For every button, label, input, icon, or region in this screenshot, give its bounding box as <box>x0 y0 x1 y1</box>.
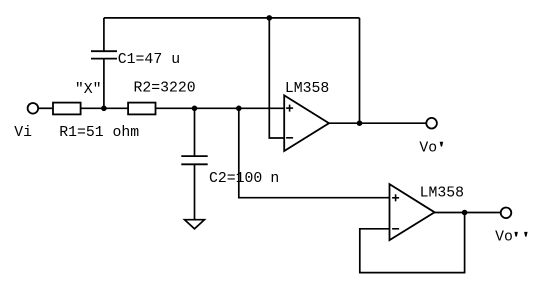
svg-text:Vo: Vo <box>495 229 513 245</box>
svg-text:LM358: LM358 <box>285 81 329 97</box>
terminal Vo' <box>426 118 437 129</box>
junction dot node to U2 <box>236 106 242 112</box>
svg-text:LM358: LM358 <box>420 186 464 202</box>
node X junction dot <box>101 106 107 112</box>
svg-text:Vi: Vi <box>14 125 32 141</box>
terminal Vo'' <box>501 208 512 219</box>
wire R1 to R2 <box>81 107 129 109</box>
svg-text:n: n <box>270 171 279 187</box>
svg-text:u: u <box>171 52 180 68</box>
svg-text:Vo: Vo <box>419 140 437 156</box>
wire top rail down to U1 output node <box>359 18 361 123</box>
resistor R2 <box>128 103 155 115</box>
wire C1 up to top rail <box>103 18 105 51</box>
wire node down to C2 <box>194 108 196 156</box>
wire node X up to C1 <box>103 59 105 109</box>
ground <box>185 220 205 229</box>
label Vo' apostrophe <box>440 142 444 147</box>
svg-text:"X": "X" <box>75 82 102 98</box>
U1 plus sign <box>286 105 293 112</box>
svg-text:R2=3220: R2=3220 <box>134 81 196 97</box>
U2 minus sign <box>392 228 399 230</box>
svg-text:C1=47: C1=47 <box>118 52 162 68</box>
terminal Vi <box>28 103 39 114</box>
op-amp U2 <box>390 184 435 240</box>
junction dot top rail <box>267 15 273 21</box>
junction dot U2 output <box>462 210 468 216</box>
svg-text:R1=51 ohm: R1=51 ohm <box>59 125 139 141</box>
wire top rail <box>104 17 360 19</box>
wire node down to U2 input <box>239 108 390 197</box>
wire U2 feedback <box>360 213 465 273</box>
U1 minus sign <box>286 137 293 139</box>
junction dot node C2 <box>192 106 198 112</box>
wire Vi to R1 <box>39 107 53 109</box>
junction dot U1 output <box>357 120 363 126</box>
label Vo'' second apostrophe <box>524 232 528 237</box>
wire U1 output to Vo' <box>329 122 426 124</box>
capacitor C1 <box>91 51 117 58</box>
wire C2 to ground <box>194 164 196 219</box>
resistor R1 <box>53 103 81 115</box>
wire top rail down to U1 inverting input <box>269 18 284 138</box>
wire U2 output to Vo'' <box>435 212 501 214</box>
U2 plus sign <box>392 194 399 201</box>
label Vo'' first apostrophe <box>514 232 518 237</box>
op-amp U1 <box>284 95 329 151</box>
wire R2 to U1 noninverting input <box>156 107 285 109</box>
svg-text:C2=100: C2=100 <box>209 171 262 187</box>
capacitor C2 <box>181 156 207 164</box>
